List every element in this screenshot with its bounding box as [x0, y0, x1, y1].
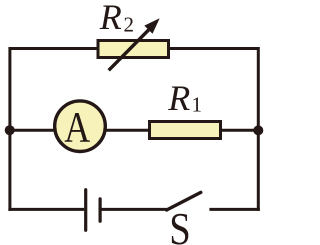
resistor R2 (variable, on top branch)	[98, 41, 169, 58]
wire: bottom segment from battery to switch pivot	[102, 208, 167, 211]
svg-text:R: R	[99, 0, 122, 37]
arrowhead of rheostat R2	[144, 18, 159, 34]
ammeter A (circle)	[55, 101, 106, 152]
wire: bottom segment from switch to right corner	[209, 208, 259, 211]
battery long plate	[84, 190, 87, 231]
node dot right	[253, 125, 263, 135]
svg-text:2: 2	[124, 12, 135, 36]
wire: outer loop (left, top, right sides)	[10, 49, 258, 211]
svg-text:S: S	[169, 203, 191, 245]
wire: middle branch	[10, 129, 258, 132]
battery short plate	[98, 199, 101, 221]
arrow shaft of rheostat R2	[109, 28, 151, 70]
wire: bottom segment from left corner to battery	[8, 208, 84, 211]
svg-text:A: A	[64, 103, 90, 151]
node dot left	[5, 125, 15, 135]
svg-text:R: R	[167, 78, 190, 118]
svg-text:1: 1	[192, 92, 203, 116]
switch S lever	[167, 192, 201, 210]
resistor R1 (middle branch)	[150, 122, 221, 139]
